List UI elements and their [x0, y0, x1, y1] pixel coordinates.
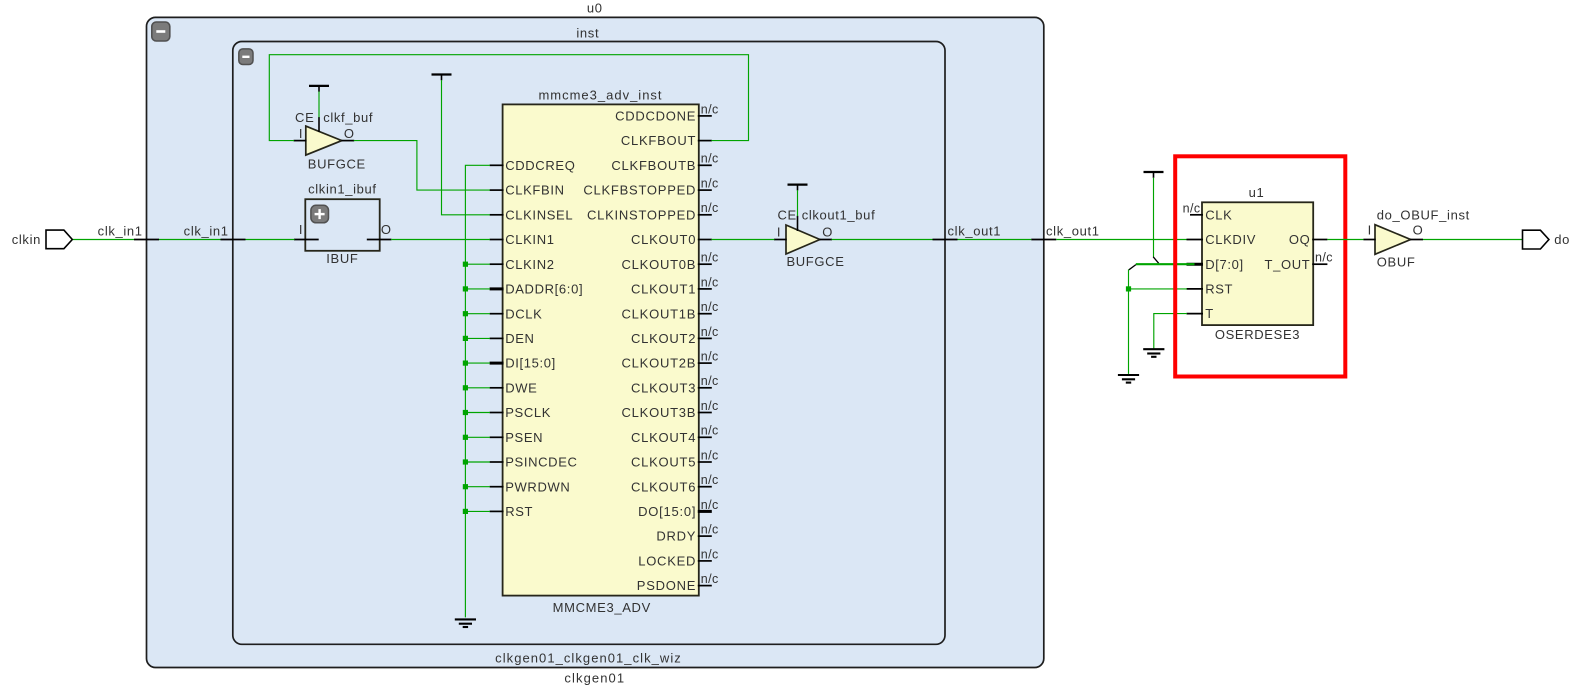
svg-text:n/c: n/c — [701, 177, 719, 191]
svg-text:CE: CE — [295, 110, 314, 125]
svg-text:u1: u1 — [1249, 185, 1265, 200]
svg-text:CLKOUT1: CLKOUT1 — [631, 282, 696, 297]
wire boundary pin at u0 right — [1031, 239, 1056, 241]
svg-text:DO[15:0]: DO[15:0] — [638, 504, 696, 519]
net n/c at DRDY — [701, 523, 719, 537]
svg-text:n/c: n/c — [701, 201, 719, 215]
pin label CLKINSTOPPED — [587, 207, 696, 222]
wire rail branch row 14 — [465, 461, 490, 463]
wire CLKOUT0 to clkout1_buf I — [711, 239, 774, 241]
svg-text:PSDONE: PSDONE — [637, 578, 696, 593]
pin CLKDIV of u1 (stub) — [1187, 239, 1204, 241]
wire rail branch row 8 — [465, 313, 490, 315]
wire clk_out1 to OSERDESE3 CLKDIV — [1056, 239, 1186, 241]
svg-text:I: I — [299, 222, 303, 237]
net label clk_out1 (top) — [1046, 223, 1100, 238]
pin RST of u1 (stub) — [1187, 288, 1204, 290]
svg-text:CLKOUT2B: CLKOUT2B — [622, 356, 697, 371]
pin label CLKFBOUT — [621, 133, 696, 148]
svg-text:O: O — [822, 224, 833, 239]
svg-text:D[7:0]: D[7:0] — [1205, 257, 1244, 272]
svg-text:n/c: n/c — [701, 473, 719, 487]
junction rail row 12 — [463, 410, 468, 415]
junction rail row 16 — [463, 509, 468, 514]
net n/c at CLKINSTOPPED — [701, 201, 719, 215]
svg-text:n/c: n/c — [701, 572, 719, 586]
svg-text:CLKFBOUT: CLKFBOUT — [621, 133, 696, 148]
pin DWE (stub) — [490, 387, 504, 389]
pin PSCLK (stub) — [490, 412, 504, 414]
pin CLKOUT6 (stub) — [698, 486, 712, 488]
svg-text:n/c: n/c — [701, 275, 719, 289]
pin CLKOUT1 (stub) — [698, 288, 712, 290]
pin DRDY (stub) — [698, 535, 712, 537]
pin label CLKOUT5 — [631, 455, 696, 470]
ground below u1 T — [1143, 349, 1164, 357]
svg-text:DADDR[6:0]: DADDR[6:0] — [505, 282, 583, 297]
wire clk_in1 to IBUF — [246, 239, 295, 241]
pin DEN (stub) — [490, 337, 504, 339]
svg-text:CLKOUT3: CLKOUT3 — [631, 380, 696, 395]
svg-text:O: O — [344, 126, 355, 141]
hierarchy block u0 (clkgen01) — [147, 1, 1044, 686]
pin CLKOUT2 (stub) — [698, 337, 712, 339]
svg-text:IBUF: IBUF — [326, 251, 358, 266]
wire rail branch row 12 — [465, 412, 490, 414]
cell clkin1_ibuf IBUF — [305, 182, 379, 267]
svg-text:BUFGCE: BUFGCE — [308, 157, 366, 172]
wire CE tie-high of clkout1_buf — [797, 190, 799, 216]
wire IBUF O to CLKIN1 — [391, 239, 490, 241]
svg-text:OBUF: OBUF — [1377, 255, 1416, 270]
pin label DEN — [505, 331, 534, 346]
pin CLKOUT2B (stub) — [698, 362, 712, 364]
wire rail branch row 11 — [465, 387, 490, 389]
ground below u1 RST — [1118, 375, 1139, 383]
expand button of clkin1_ibuf — [311, 205, 329, 223]
highlight box around u1 — [1175, 156, 1345, 376]
junction rail row 13 — [463, 435, 468, 440]
pin DADDR[6:0] (stub) — [490, 287, 504, 290]
pin label DO[15:0] — [638, 504, 696, 519]
junction rail row 14 — [463, 459, 468, 464]
net n/c at CLKOUT1B — [701, 300, 719, 314]
pin I of IBUF — [294, 222, 319, 240]
pin CLKOUT3 (stub) — [698, 387, 712, 389]
net n/c at CLKOUT0B — [701, 251, 719, 265]
bus ramp GND joins D[7:0] — [1129, 265, 1136, 270]
pin T_OUT of u1 (stub) — [1312, 263, 1327, 265]
junction rail row 9 — [463, 336, 468, 341]
svg-text:n/c: n/c — [701, 424, 719, 438]
pin label LOCKED — [638, 554, 696, 569]
wire CDDCREQ / tie-low rail — [465, 165, 490, 617]
wire clkin to boundary — [72, 239, 134, 241]
pin CLKFBOUT (stub) — [698, 140, 712, 142]
svg-text:clk_in1: clk_in1 — [98, 223, 143, 238]
junction rail row 10 — [463, 361, 468, 366]
svg-text:clkin1_ibuf: clkin1_ibuf — [308, 182, 377, 197]
wire OQ to OBUF I — [1327, 239, 1363, 241]
net n/c at CLKOUT3 — [701, 374, 719, 388]
pin I stub of do_OBUF_inst — [1363, 239, 1375, 241]
pin label CLKIN2 — [505, 257, 554, 272]
junction rail row 11 — [463, 385, 468, 390]
net n/c at CLKOUT3B — [701, 399, 719, 413]
pin label CLKFBSTOPPED — [583, 183, 696, 198]
wire rail branch row 10 — [465, 362, 490, 364]
svg-text:clkin: clkin — [12, 232, 41, 247]
junction rail row 6 — [463, 262, 468, 267]
pin label CLKOUT1B — [622, 306, 697, 321]
junction RST tie — [1126, 286, 1131, 291]
svg-text:clkgen01: clkgen01 — [564, 671, 625, 686]
net n/c at CLKFBSTOPPED — [701, 177, 719, 191]
port clkin (input) — [12, 230, 73, 249]
svg-text:CLKOUT0: CLKOUT0 — [631, 232, 696, 247]
pin CLKFBSTOPPED (stub) — [698, 189, 712, 191]
svg-text:I: I — [1368, 223, 1372, 238]
wire CE tie-high of clkf_buf — [318, 92, 320, 118]
net n/c at T_OUT of u1 — [1315, 251, 1333, 265]
pin label DADDR[6:0] — [505, 282, 583, 297]
power tie-high VCC at u1 D — [1144, 172, 1164, 178]
pin CLKFBOUTB (stub) — [698, 164, 712, 166]
pin label CLKDIV of u1 — [1205, 232, 1256, 247]
svg-text:n/c: n/c — [701, 448, 719, 462]
svg-text:n/c: n/c — [701, 498, 719, 512]
svg-text:clk_in1: clk_in1 — [184, 223, 229, 238]
hierarchy block inst (clkgen01_clkgen01_clk_wiz) — [233, 26, 945, 666]
pin label T_OUT of u1 — [1265, 257, 1311, 272]
pin label CLKOUT6 — [631, 479, 696, 494]
pin label DCLK — [505, 306, 542, 321]
net n/c at CDDCDONE — [701, 102, 719, 116]
svg-text:DRDY: DRDY — [656, 529, 696, 544]
net label clk_in1 — [98, 223, 143, 238]
svg-text:mmcme3_adv_inst: mmcme3_adv_inst — [538, 88, 662, 103]
pin label CLKINSEL — [505, 207, 573, 222]
svg-text:u0: u0 — [587, 1, 603, 16]
svg-text:clk_out1: clk_out1 — [1046, 223, 1100, 238]
junction rail row 7 — [463, 286, 468, 291]
svg-text:CLKIN2: CLKIN2 — [505, 257, 554, 272]
svg-text:CLKFBOUTB: CLKFBOUTB — [611, 158, 696, 173]
svg-text:n/c: n/c — [701, 325, 719, 339]
wire rail branch row 16 — [465, 510, 490, 512]
svg-text:CLKFBSTOPPED: CLKFBSTOPPED — [583, 183, 696, 198]
svg-text:DCLK: DCLK — [505, 306, 542, 321]
svg-text:LOCKED: LOCKED — [638, 554, 696, 569]
net n/c at CLKFBOUTB — [701, 152, 719, 166]
net n/c at CLKOUT1 — [701, 275, 719, 289]
svg-text:T_OUT: T_OUT — [1265, 257, 1311, 272]
pin label DRDY — [656, 529, 696, 544]
svg-text:OSERDESE3: OSERDESE3 — [1215, 327, 1300, 342]
pin CE stub of clkf_buf — [318, 117, 320, 132]
pin label CLKOUT4 — [631, 430, 696, 445]
pin LOCKED (stub) — [698, 560, 712, 562]
pin label CLKOUT0B — [622, 257, 697, 272]
pin label CLKFBOUTB — [611, 158, 696, 173]
wire T tie-low — [1154, 314, 1187, 349]
pin O stub of do_OBUF_inst — [1410, 239, 1423, 241]
pin label CLK of u1 — [1205, 207, 1232, 222]
svg-text:DWE: DWE — [505, 380, 537, 395]
svg-text:DEN: DEN — [505, 331, 534, 346]
svg-text:PSINCDEC: PSINCDEC — [505, 455, 577, 470]
pin PSINCDEC (stub) — [490, 461, 504, 463]
svg-text:n/c: n/c — [1315, 251, 1333, 265]
svg-text:n/c: n/c — [701, 251, 719, 265]
power tie-high VCC at clkout1_buf CE — [788, 185, 808, 191]
wire rail branch row 9 — [465, 337, 490, 339]
net n/c at PSDONE — [701, 572, 719, 586]
pin label PSEN — [505, 430, 543, 445]
net n/c at CLK of u1 — [1183, 201, 1201, 215]
svg-text:n/c: n/c — [701, 547, 719, 561]
wire rail branch row 15 — [465, 486, 490, 488]
pin CE stub of clkout1_buf — [797, 216, 799, 231]
pin label PSCLK — [505, 405, 551, 420]
pin RST (stub) — [490, 510, 504, 512]
net n/c at CLKOUT4 — [701, 424, 719, 438]
svg-text:PSCLK: PSCLK — [505, 405, 551, 420]
pin label PWRDWN — [505, 479, 570, 494]
svg-text:PWRDWN: PWRDWN — [505, 479, 570, 494]
pin I stub of clkf_buf — [294, 140, 307, 142]
svg-text:clkgen01_clkgen01_clk_wiz: clkgen01_clkgen01_clk_wiz — [495, 650, 682, 665]
power tie-high VCC at clkf_buf CE — [309, 86, 329, 92]
svg-text:n/c: n/c — [701, 399, 719, 413]
pin PSDONE (stub) — [698, 585, 712, 587]
svg-text:CLKFBIN: CLKFBIN — [505, 183, 564, 198]
pin label D[7:0] of u1 — [1205, 257, 1244, 272]
pin CLKOUT0 (stub) — [698, 239, 712, 241]
net n/c at CLKOUT5 — [701, 448, 719, 462]
pin label RST of u1 — [1205, 282, 1233, 297]
pin label CLKFBIN — [505, 183, 564, 198]
svg-text:n/c: n/c — [701, 152, 719, 166]
pin PWRDWN (stub) — [490, 486, 504, 488]
pin DO[15:0] (stub) — [698, 510, 712, 513]
net n/c at DO[15:0] — [701, 498, 719, 512]
svg-text:CLKDIV: CLKDIV — [1205, 232, 1256, 247]
svg-text:n/c: n/c — [1183, 201, 1201, 215]
svg-text:CLKOUT3B: CLKOUT3B — [622, 405, 697, 420]
junction rail row 15 — [463, 484, 468, 489]
svg-text:I: I — [299, 126, 303, 141]
svg-text:DI[15:0]: DI[15:0] — [505, 356, 556, 371]
bus ramp VCC joins D[7:0] — [1153, 257, 1159, 264]
pin CLKINSEL (stub) — [490, 214, 504, 216]
pin label PSDONE — [637, 578, 696, 593]
svg-text:CDDCDONE: CDDCDONE — [615, 109, 696, 124]
net n/c at CLKOUT2B — [701, 350, 719, 364]
pin O of IBUF — [367, 222, 392, 240]
svg-text:CDDCREQ: CDDCREQ — [505, 158, 575, 173]
pin CLKINSTOPPED (stub) — [698, 214, 712, 216]
svg-text:RST: RST — [1205, 282, 1233, 297]
pin D[7:0] of u1 (stub) — [1187, 263, 1204, 266]
pin I stub of clkout1_buf — [774, 239, 787, 241]
pin label CLKOUT2 — [631, 331, 696, 346]
pin OQ of u1 (stub) — [1312, 239, 1327, 241]
svg-text:CLKOUT2: CLKOUT2 — [631, 331, 696, 346]
pin label CLKOUT3B — [622, 405, 697, 420]
net label clk_out1 — [948, 223, 1002, 238]
svg-text:CLKOUT4: CLKOUT4 — [631, 430, 696, 445]
svg-text:CLK: CLK — [1205, 207, 1232, 222]
pin CLKOUT5 (stub) — [698, 461, 712, 463]
svg-text:CLKINSTOPPED: CLKINSTOPPED — [587, 207, 696, 222]
pin CLK of u1 (stub) — [1190, 214, 1203, 216]
pin label OQ of u1 — [1289, 232, 1311, 247]
wire tie-low vertical at u1 — [1128, 270, 1130, 374]
svg-text:CLKIN1: CLKIN1 — [505, 232, 554, 247]
svg-text:n/c: n/c — [701, 374, 719, 388]
svg-text:T: T — [1205, 306, 1214, 321]
svg-text:I: I — [777, 224, 781, 239]
wire boundary pin at u0 left — [134, 239, 159, 241]
svg-text:PSEN: PSEN — [505, 430, 543, 445]
wire clkf_buf O to CLKFBIN — [354, 141, 490, 191]
svg-text:OQ: OQ — [1289, 232, 1311, 247]
svg-text:n/c: n/c — [701, 102, 719, 116]
wire boundary pin at inst right — [933, 239, 958, 241]
pin label CDDCDONE — [615, 109, 696, 124]
svg-text:n/c: n/c — [701, 523, 719, 537]
pin PSEN (stub) — [490, 436, 504, 438]
wire rail branch row 7 — [465, 288, 490, 290]
svg-text:inst: inst — [576, 26, 599, 41]
ground under MMCME rail — [455, 619, 476, 627]
pin CLKOUT4 (stub) — [698, 436, 712, 438]
svg-text:n/c: n/c — [701, 300, 719, 314]
svg-text:do: do — [1554, 232, 1570, 247]
pin T of u1 (stub) — [1187, 313, 1204, 315]
pin label CLKIN1 — [505, 232, 554, 247]
svg-text:clk_out1: clk_out1 — [948, 223, 1002, 238]
wire VCC to D bus — [1153, 178, 1155, 257]
wire rail branch row 6 — [465, 263, 490, 265]
pin CLKIN2 (stub) — [490, 263, 504, 265]
net label clk_in1 (inst) — [184, 223, 229, 238]
svg-text:CLKINSEL: CLKINSEL — [505, 207, 573, 222]
svg-text:n/c: n/c — [701, 350, 719, 364]
wire CLKFBOUT feedback (top loop) — [269, 55, 748, 141]
buffer do_OBUF_inst OBUF — [1368, 208, 1470, 270]
pin CLKIN1 (stub) — [490, 239, 504, 241]
pin CLKOUT3B (stub) — [698, 412, 712, 414]
pin label CLKOUT3 — [631, 380, 696, 395]
wire OBUF O to do port — [1423, 239, 1523, 241]
buffer clkout1_buf BUFGCE — [777, 208, 875, 270]
pin label PSINCDEC — [505, 455, 577, 470]
pin label CLKOUT2B — [622, 356, 697, 371]
pin DCLK (stub) — [490, 313, 504, 315]
wire RST tie-low — [1129, 288, 1188, 290]
pin label CDDCREQ — [505, 158, 575, 173]
net n/c at CLKOUT6 — [701, 473, 719, 487]
wire clkout1_buf O to inst boundary — [832, 239, 933, 241]
svg-text:CE: CE — [777, 208, 796, 223]
pin label T of u1 — [1205, 306, 1214, 321]
net n/c at CLKOUT2 — [701, 325, 719, 339]
svg-text:CLKOUT5: CLKOUT5 — [631, 455, 696, 470]
svg-text:RST: RST — [505, 504, 533, 519]
wire clk_in1 inside u0 — [159, 239, 221, 241]
svg-text:BUFGCE: BUFGCE — [786, 254, 844, 269]
pin label DI[15:0] — [505, 356, 556, 371]
pin CDDCDONE (stub) — [698, 115, 712, 117]
svg-text:CLKOUT6: CLKOUT6 — [631, 479, 696, 494]
pin label RST — [505, 504, 533, 519]
svg-text:clkout1_buf: clkout1_buf — [802, 208, 876, 223]
power tie-high VCC at CLKINSEL — [432, 75, 452, 81]
pin DI[15:0] (stub) — [490, 362, 504, 365]
collapse button of u0 — [152, 22, 170, 41]
wire rail branch row 13 — [465, 436, 490, 438]
port do (output) — [1523, 230, 1571, 249]
pin CLKFBIN (stub) — [490, 189, 504, 191]
pin label CLKOUT0 — [631, 232, 696, 247]
wire clk_out1 inside u0 — [958, 239, 1032, 241]
cell mmcme3_adv_inst MMCME3_ADV — [503, 88, 699, 615]
pin O stub of clkout1_buf — [819, 239, 832, 241]
svg-text:do_OBUF_inst: do_OBUF_inst — [1377, 208, 1470, 223]
pin CDDCREQ (stub) — [490, 164, 504, 166]
svg-text:MMCME3_ADV: MMCME3_ADV — [553, 600, 651, 615]
svg-text:O: O — [1413, 223, 1424, 238]
svg-text:CLKOUT0B: CLKOUT0B — [622, 257, 697, 272]
svg-text:clkf_buf: clkf_buf — [323, 110, 373, 125]
bus D[7:0] tie — [1136, 263, 1195, 265]
net n/c at LOCKED — [701, 547, 719, 561]
wire boundary pin at inst left — [221, 239, 246, 241]
svg-text:O: O — [381, 222, 392, 237]
pin label CLKOUT1 — [631, 282, 696, 297]
cell u1 OSERDESE3 — [1202, 185, 1313, 342]
pin label DWE — [505, 380, 537, 395]
svg-text:CLKOUT1B: CLKOUT1B — [622, 306, 697, 321]
buffer clkf_buf BUFGCE — [295, 110, 373, 172]
pin CLKOUT1B (stub) — [698, 313, 712, 315]
pin O stub of clkf_buf — [341, 140, 354, 142]
collapse button of inst — [239, 49, 253, 65]
junction rail row 8 — [463, 311, 468, 316]
pin CLKOUT0B (stub) — [698, 263, 712, 265]
wire CLKINSEL tie-high — [442, 80, 491, 215]
